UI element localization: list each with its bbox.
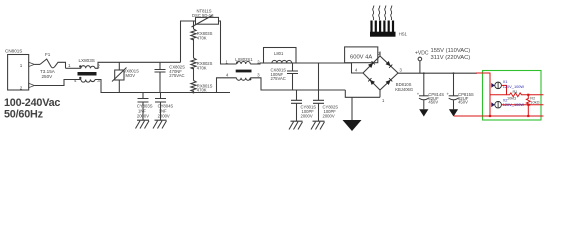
ground arrow (DC return) [351,97,353,120]
svg-text:KBJ406G: KBJ406G [395,87,413,92]
green highlight box [483,71,542,121]
wire choke2 top out [250,63,272,64]
wire [193,68,195,81]
wire choke2 bottom out to bottom rail [250,78,345,90]
junction node [489,115,491,117]
capacitor CP814S [423,72,425,74]
svg-text:10kΩ: 10kΩ [507,96,516,101]
svg-text:LX803S: LX803S [79,58,95,63]
wire to bottom rail [193,91,195,93]
svg-text:120V_100W: 120V_100W [503,102,525,107]
DC+ rail [398,72,477,74]
svg-text:470K: 470K [197,36,207,41]
resistor chain top wire [193,21,195,29]
svg-text:3: 3 [97,78,100,83]
node R1/R2 [527,94,529,96]
svg-text:1: 1 [20,63,23,68]
connector CN801S body [8,55,29,91]
svg-text:L801: L801 [274,51,284,56]
ground (chassis) under CY801S [289,121,303,129]
ground (chassis) under CY802S [311,121,325,129]
heatsink HS1 [373,6,374,21]
svg-text:470K: 470K [197,87,207,92]
wire fuse to choke [66,67,82,69]
wire red return (bottom) [454,115,544,117]
capacitor CY801S [296,90,298,100]
wire choke bottom out to bottom rail [95,80,230,93]
wire [193,39,195,58]
svg-text:275VAC: 275VAC [271,76,286,81]
diode D1 (top-left) [368,61,375,68]
bridge pin 1 stub [379,90,381,97]
svg-text:1: 1 [68,63,71,68]
wire bottom rail riser to choke2 pin 4 [217,78,237,93]
ground arrow under CP814S [419,109,428,116]
lamp X1 [491,83,495,88]
svg-text:2000V: 2000V [158,114,170,119]
ground (chassis) under CY803S [136,120,150,128]
capacitor CY802S (from top rail) [318,63,320,100]
svg-text:450V: 450V [458,100,468,105]
svg-text:600V 4A: 600V 4A [350,54,372,60]
rating box 600V 4A [345,47,378,63]
svg-text:100-240Vac: 100-240Vac [4,97,60,109]
svg-text:10kΩ: 10kΩ [530,99,539,104]
resistor RX801S [191,81,196,92]
capacitor CX801S [292,63,294,71]
svg-text:311V (220VAC): 311V (220VAC) [431,55,471,61]
capacitor CX802S [159,62,161,69]
wire riser to NTC [181,21,196,62]
svg-text:F1: F1 [45,52,51,57]
bottom rail into bridge return [345,90,380,97]
bridge pin 2 stub [379,52,381,57]
lamp X2 [491,102,495,107]
diode D2 (top-right) [386,61,393,68]
svg-text:+VDC: +VDC [415,50,429,56]
top rail to bridge [296,63,363,73]
wire choke top out to top rail [95,62,181,68]
diode D3 (bottom-left) [368,78,375,85]
capacitor CY803S [142,93,144,99]
bridge rectifier BD810S [363,56,398,90]
wire NTC to down riser [219,21,237,64]
svg-text:CN801S: CN801S [5,48,22,53]
diode D4 (bottom-right) [386,78,393,85]
capacitor CP815S [453,72,455,74]
svg-text:MOV: MOV [126,73,136,78]
varistor VX801S [118,62,120,70]
svg-text:470K: 470K [197,65,207,70]
wire red DC feed [476,73,490,116]
svg-text:2000V: 2000V [323,113,335,118]
inductor L801 [264,48,297,64]
ground arrow under CP815S [449,109,458,116]
svg-text:250V: 250V [42,74,54,79]
svg-text:2: 2 [20,85,23,90]
junction node [527,115,529,117]
svg-text:2000V: 2000V [137,114,149,119]
resistor R1 [490,93,544,97]
svg-text:2000V: 2000V [301,113,313,118]
wire pin1 to fuse [34,63,40,65]
svg-text:4: 4 [74,78,77,83]
wire pin2 to choke bottom [34,80,81,86]
svg-text:155V (110VAC): 155V (110VAC) [431,48,471,54]
svg-text:HS1: HS1 [399,32,408,37]
resistor RX803S [191,29,196,40]
resistor R2 [526,95,530,116]
svg-text:450V: 450V [428,100,438,105]
resistor RX802S [191,58,196,69]
svg-text:275VAC: 275VAC [169,73,184,78]
capacitor CY804S [160,93,162,99]
svg-text:R1: R1 [513,89,518,94]
ground (chassis) under CY804S [153,120,167,128]
svg-text:50/60Hz: 50/60Hz [4,108,44,120]
